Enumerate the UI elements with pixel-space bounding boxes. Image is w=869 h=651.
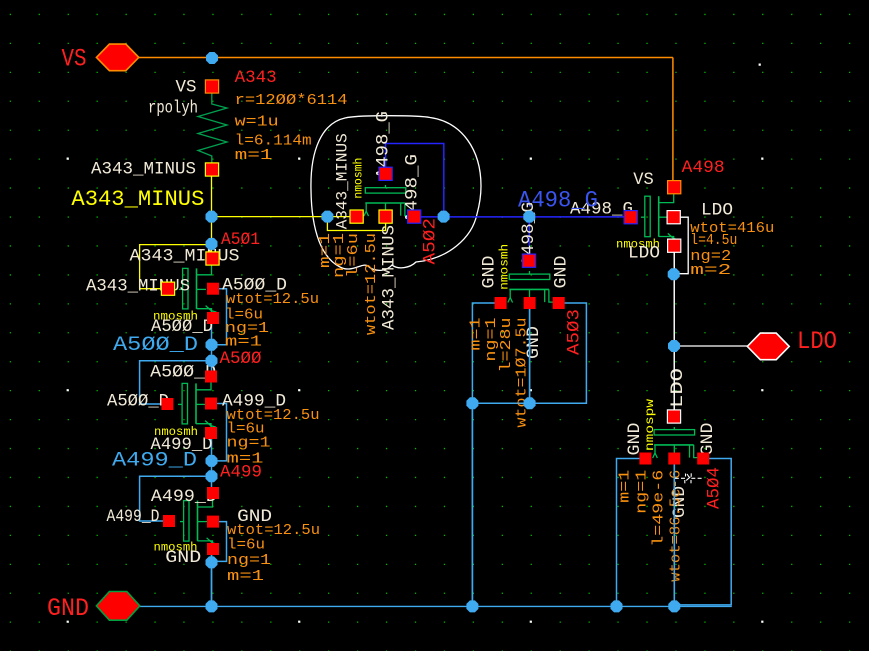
svg-text:l=4.5u: l=4.5u bbox=[690, 232, 737, 249]
svg-text:LDO: LDO bbox=[628, 244, 660, 264]
svg-text:l=6u: l=6u bbox=[227, 537, 265, 554]
svg-text:r=12ØØ*6114: r=12ØØ*6114 bbox=[235, 92, 348, 109]
svg-text:A343_MINUS: A343_MINUS bbox=[130, 247, 240, 267]
svg-text:nmosmh: nmosmh bbox=[352, 158, 365, 199]
svg-text:A343_MINUS: A343_MINUS bbox=[380, 225, 400, 330]
svg-text:rpolyh: rpolyh bbox=[148, 99, 198, 119]
svg-text:LDO: LDO bbox=[797, 327, 837, 356]
svg-text:A5ØØ: A5ØØ bbox=[220, 349, 262, 369]
svg-text:w=1u: w=1u bbox=[235, 114, 279, 131]
svg-text:m=1: m=1 bbox=[235, 147, 273, 164]
svg-text:A498: A498 bbox=[682, 158, 725, 178]
svg-text:A5ØØ_D: A5ØØ_D bbox=[107, 392, 169, 412]
svg-text:A5Ø3: A5Ø3 bbox=[565, 309, 585, 355]
svg-text:GND: GND bbox=[551, 256, 571, 289]
svg-text:LDO: LDO bbox=[701, 201, 733, 221]
svg-text:VS: VS bbox=[633, 170, 654, 190]
svg-text:A343_MINUS: A343_MINUS bbox=[334, 133, 352, 229]
svg-text:ng=1: ng=1 bbox=[634, 470, 651, 514]
svg-text:wtot=12.5u: wtot=12.5u bbox=[226, 291, 319, 308]
svg-text:wtot=1Ø7.5u: wtot=1Ø7.5u bbox=[513, 318, 530, 428]
svg-text:nmosmh: nmosmh bbox=[497, 244, 511, 290]
svg-text:GND: GND bbox=[47, 594, 89, 623]
svg-text:ng=1: ng=1 bbox=[227, 552, 271, 569]
svg-text:l=49e-6: l=49e-6 bbox=[651, 470, 668, 547]
svg-text:A343: A343 bbox=[235, 68, 277, 88]
svg-text:GND: GND bbox=[165, 548, 201, 568]
svg-text:VS: VS bbox=[176, 78, 197, 98]
svg-text:LDO: LDO bbox=[668, 368, 688, 408]
svg-text:A5Ø2: A5Ø2 bbox=[420, 218, 440, 265]
svg-text:m=1: m=1 bbox=[227, 568, 264, 585]
svg-text:wtot=12.5u: wtot=12.5u bbox=[363, 233, 380, 335]
svg-text:A343_MINUS: A343_MINUS bbox=[71, 187, 204, 212]
svg-text:A499_D: A499_D bbox=[107, 507, 160, 527]
svg-text:A499_D: A499_D bbox=[112, 450, 197, 473]
svg-text:ng=1: ng=1 bbox=[227, 435, 271, 452]
svg-text:A5ØØ_D: A5ØØ_D bbox=[113, 334, 198, 357]
svg-text:GND: GND bbox=[625, 423, 645, 456]
svg-text:A343_MINUS: A343_MINUS bbox=[91, 160, 196, 180]
svg-text:wtot=86.5e-6: wtot=86.5e-6 bbox=[668, 470, 685, 582]
svg-text:GND: GND bbox=[698, 423, 718, 456]
svg-text:A5Ø4: A5Ø4 bbox=[705, 467, 725, 509]
svg-text:m=1: m=1 bbox=[617, 470, 634, 503]
svg-text:l=6u: l=6u bbox=[345, 233, 362, 278]
svg-text:A499: A499 bbox=[220, 463, 262, 483]
svg-text:nmospw: nmospw bbox=[643, 398, 657, 451]
svg-text:m=1: m=1 bbox=[225, 334, 262, 351]
svg-text:m=2: m=2 bbox=[690, 262, 731, 279]
svg-text:VS: VS bbox=[62, 45, 87, 74]
